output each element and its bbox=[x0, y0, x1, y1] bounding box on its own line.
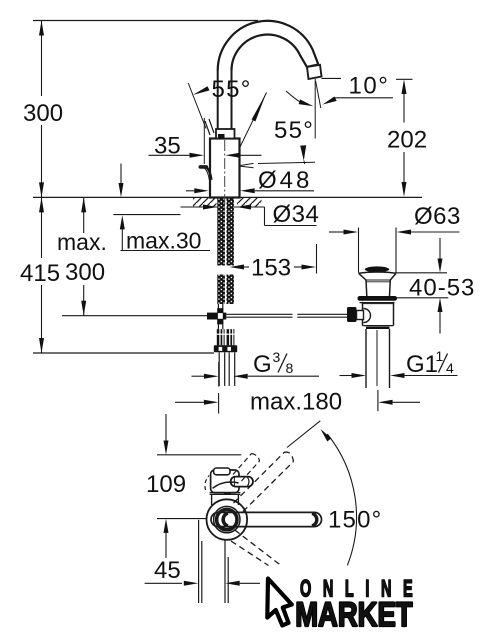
hose nut band bbox=[214, 345, 237, 352]
spout curved tube inner bbox=[232, 35, 307, 71]
spout riser bbox=[217, 71, 219, 130]
svg-text:max.: max. bbox=[57, 229, 107, 255]
swivel body circles bbox=[217, 509, 237, 529]
angle 55 deg right bbox=[239, 79, 321, 168]
down wedge arrow below 55 deg bbox=[300, 145, 306, 161]
dashed handle position marks bbox=[205, 121, 210, 135]
cap disc bbox=[365, 266, 389, 272]
svg-text:8: 8 bbox=[286, 360, 294, 376]
svg-text:Ø63: Ø63 bbox=[414, 203, 461, 230]
deck slab hatching right bbox=[237, 198, 262, 207]
logo MARKET bbox=[295, 595, 412, 634]
logo ONLINE bbox=[300, 576, 424, 603]
collar notch bbox=[218, 134, 225, 139]
threaded shank through deck bbox=[217, 198, 234, 212]
svg-text:300: 300 bbox=[65, 259, 105, 286]
logo cursor arrow bbox=[267, 579, 292, 626]
dimension 153 bbox=[230, 244, 317, 282]
dimension 35 bbox=[149, 118, 262, 164]
max30 annotation bbox=[113, 164, 210, 254]
drain pop-up waste bbox=[347, 266, 397, 388]
flange seal ring bbox=[358, 296, 398, 301]
dimension G1 1/4 bbox=[340, 348, 458, 378]
dashed rotated spout (up position) bbox=[234, 452, 294, 511]
flange top curve bbox=[359, 272, 397, 273]
reference line B spout centerline bbox=[157, 518, 207, 520]
spout right heavy cap bbox=[312, 513, 317, 525]
hose tails bbox=[218, 352, 220, 386]
pipe below swivel body bbox=[198, 520, 200, 603]
handle lever bbox=[200, 167, 211, 180]
svg-text:55°: 55° bbox=[212, 76, 252, 103]
svg-text:202: 202 bbox=[387, 127, 427, 154]
svg-text:max.30: max.30 bbox=[126, 228, 201, 254]
svg-text:3: 3 bbox=[273, 349, 281, 365]
svg-text:G: G bbox=[253, 351, 272, 378]
radius line to 150 arc bbox=[287, 421, 320, 448]
collar cap bbox=[216, 129, 235, 139]
pop-up rod horizontal bbox=[62, 315, 207, 317]
dimension Ø48 bbox=[186, 167, 314, 194]
150 deg arc bbox=[327, 434, 356, 565]
elongated leader to body edge bbox=[239, 163, 254, 165]
dimension Ø63 bbox=[329, 203, 461, 273]
white centerline in rod bbox=[225, 198, 227, 304]
rod knob bbox=[347, 307, 357, 322]
svg-text:Ø48: Ø48 bbox=[258, 167, 312, 194]
svg-text:G1: G1 bbox=[406, 351, 438, 378]
svg-text:153: 153 bbox=[251, 255, 291, 282]
dashed rotated spout (down position) bbox=[231, 530, 281, 566]
deck slab hatching left bbox=[193, 198, 217, 207]
svg-text:4: 4 bbox=[446, 360, 454, 376]
faucet body bbox=[210, 139, 240, 198]
dimension G 3/8 bbox=[192, 349, 320, 387]
svg-text:35: 35 bbox=[154, 133, 181, 160]
svg-text:max.180: max.180 bbox=[250, 389, 342, 416]
dimension 202 bbox=[387, 79, 427, 197]
tailpipe bbox=[365, 329, 367, 388]
svg-text:150°: 150° bbox=[328, 507, 382, 534]
dimension Ø34 arrows on deck bottom line bbox=[203, 201, 319, 228]
svg-text:10°: 10° bbox=[349, 73, 390, 100]
top reference line bbox=[33, 20, 258, 22]
svg-text:MARKET: MARKET bbox=[295, 595, 412, 634]
dimension 415 vertical line bbox=[39, 197, 44, 353]
aerator separator bbox=[307, 64, 318, 67]
spout curved tube outer bbox=[218, 21, 319, 71]
body centerline bbox=[224, 140, 226, 211]
bottom hose reference line bbox=[33, 352, 214, 354]
dimension 45 bbox=[145, 557, 260, 586]
angle 55 deg left bbox=[188, 76, 266, 147]
svg-text:40-53: 40-53 bbox=[409, 275, 475, 302]
dimension 300 vertical line bbox=[39, 21, 44, 198]
spout left heavy cap bbox=[223, 513, 228, 526]
spout pill top view bbox=[211, 512, 322, 526]
deck reference line bbox=[33, 196, 422, 198]
rod cross fitting bbox=[207, 304, 226, 329]
svg-text:415: 415 bbox=[20, 260, 60, 287]
svg-text:300: 300 bbox=[23, 100, 63, 127]
svg-text:1: 1 bbox=[436, 348, 444, 364]
reference line A handle top bbox=[157, 454, 241, 456]
hose fittings bbox=[214, 329, 237, 386]
svg-text:109: 109 bbox=[146, 471, 186, 498]
handle top view block bbox=[205, 454, 260, 506]
dimension max.180 bbox=[175, 389, 420, 416]
dimension 40-53 bbox=[396, 238, 475, 334]
angle 10 deg bbox=[322, 73, 394, 105]
svg-text:55°: 55° bbox=[274, 117, 314, 144]
svg-text:45: 45 bbox=[154, 557, 181, 584]
lower body bbox=[362, 302, 364, 326]
dimension 109 bbox=[146, 414, 186, 558]
aerator block bbox=[307, 65, 322, 79]
dimension max300 vertical line bbox=[81, 197, 86, 315]
threaded rod segment 1 bbox=[217, 212, 234, 266]
svg-text:Ø34: Ø34 bbox=[273, 201, 320, 228]
bottom of body bbox=[363, 325, 394, 327]
dashed lever rotated bbox=[233, 454, 260, 482]
deck bottom line bbox=[181, 206, 265, 208]
threaded rod segment 2 bbox=[217, 275, 234, 305]
